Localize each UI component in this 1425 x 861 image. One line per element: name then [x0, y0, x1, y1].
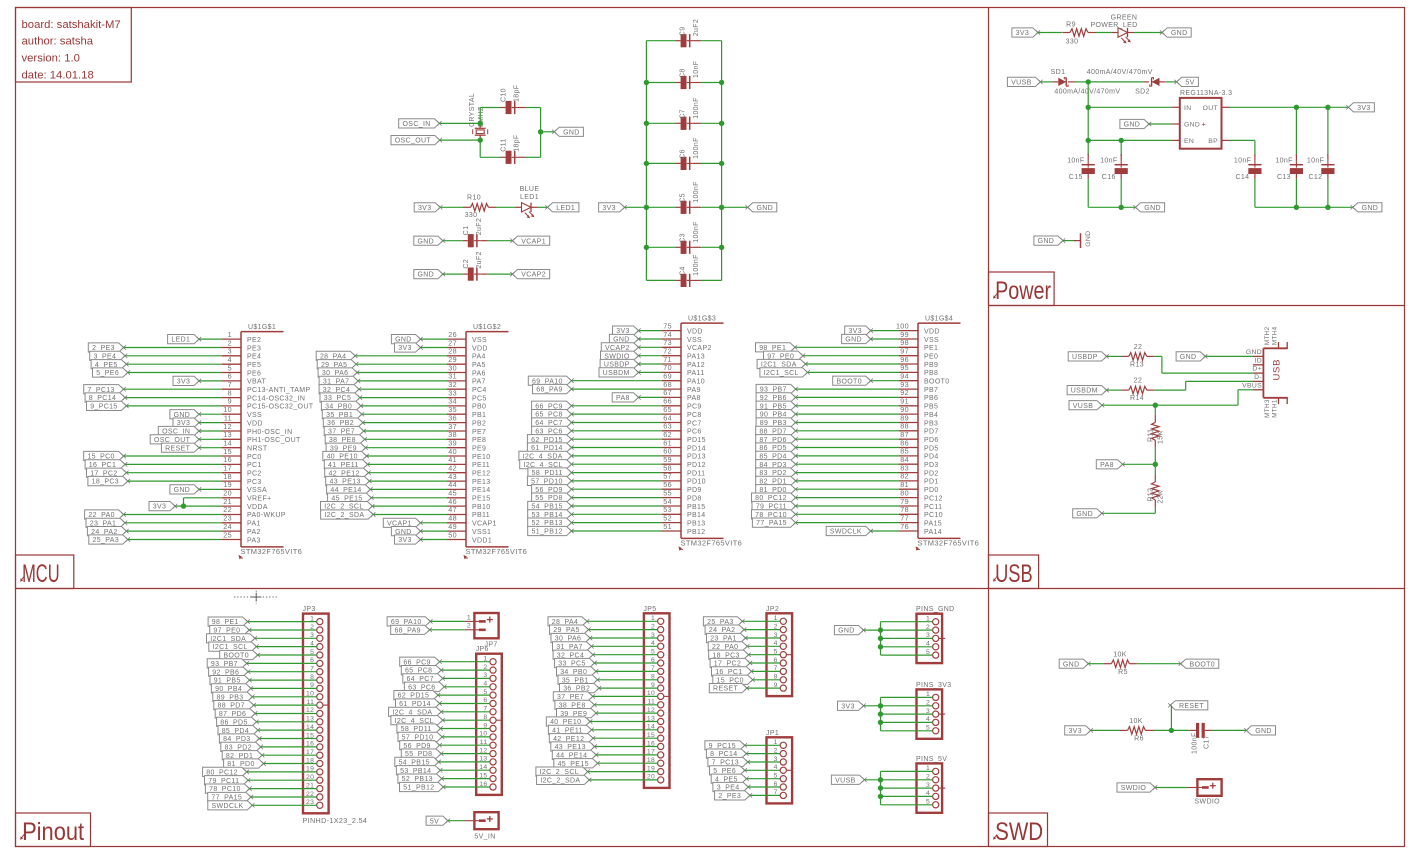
svg-text:JP3: JP3: [303, 606, 316, 613]
pin 19 of JP3: [306, 766, 323, 775]
label C5: [680, 193, 687, 203]
svg-text:STM32F765VIT6: STM32F765VIT6: [466, 547, 528, 556]
connector JP7 name: [485, 642, 498, 649]
svg-text:PH1-OSC_OUT: PH1-OSC_OUT: [247, 437, 301, 444]
pin 17 PC2 of U$1G$1: [222, 464, 262, 478]
pin 20 VREF+ of U$1G$1: [222, 489, 272, 503]
net label 8_PC14 JP1 pin 2: [706, 749, 748, 758]
wire bus to PINS_GND pin 1: [881, 621, 933, 623]
svg-text:3V3: 3V3: [602, 205, 616, 212]
svg-text:25: 25: [223, 530, 232, 539]
wire 82_PD1 to pin 82: [796, 480, 899, 482]
wire 79_PC11 to pin 79: [796, 505, 899, 507]
pin 5 of JP5: [651, 649, 664, 658]
svg-text:BP: BP: [1208, 138, 1218, 145]
wire 54_PB15 to JP6 pin 13: [439, 761, 490, 763]
wire R10 to LED1: [496, 206, 516, 208]
pin 94 BOOT0 of U$1G$4: [899, 372, 949, 386]
net label 61_PD14 JP6 pin 6: [396, 699, 442, 708]
wire 40_PE10 to pin 40: [367, 455, 447, 457]
net label 39_PE9 JP5 pin 12: [557, 709, 599, 718]
label 10nF C13: [1275, 158, 1292, 165]
svg-text:PC6: PC6: [687, 429, 702, 436]
pin 33 PC5 of U$1G$2: [447, 388, 487, 402]
pin 23 of JP3: [306, 799, 323, 808]
pin 4 of JP3: [310, 640, 323, 649]
net label I2C_4_SCL pin 59: [520, 460, 574, 469]
net label 54_PB15 JP6 pin 13: [395, 757, 441, 766]
pin 91 PB5 of U$1G$4: [899, 397, 938, 411]
wire 7_PC13 to pin 7: [124, 388, 222, 390]
pin 10 of JP6: [479, 731, 496, 740]
wire 22_PA0 to JP2 pin 4: [747, 645, 780, 647]
svg-text:10nF: 10nF: [1067, 158, 1084, 165]
net label I2C_2_SDA JP5 pin 20: [537, 775, 592, 784]
net label 86_PD5 pin 86: [756, 443, 798, 452]
svg-text:5V: 5V: [430, 818, 439, 825]
net label 69_PA10 JP7: [387, 617, 432, 626]
pin 68 PA9 of U$1G$3: [662, 380, 701, 394]
connector JP5 body: [644, 613, 670, 788]
pin 29 PA5 of U$1G$2: [447, 355, 486, 369]
net label PA8 pin 67: [612, 393, 641, 402]
svg-text:VCAP2: VCAP2: [521, 272, 546, 279]
svg-text:GND: GND: [845, 337, 862, 344]
pad SWDIO body: [1188, 779, 1222, 796]
net label 68_PA9 pin 68: [533, 384, 574, 393]
svg-text:PD4: PD4: [924, 454, 939, 461]
svg-text:PA9: PA9: [687, 387, 701, 394]
net label 92_PB6 pin 92: [756, 393, 798, 402]
wire junction to VREF+: [184, 498, 223, 506]
wire GND to pin 26: [421, 338, 448, 340]
wire 18_PC3 to JP2 pin 5: [749, 654, 781, 656]
net label GND pin 99: [842, 334, 873, 343]
wire 79_PC11 to JP3 pin 20: [248, 779, 317, 781]
wire 69_PA10 to pin 69: [572, 380, 663, 382]
wire 3V3 to pin 11: [199, 422, 222, 424]
wire 80_PC12 to JP3 pin 19: [247, 771, 317, 773]
pin 8 PC14-OSC32_IN of U$1G$1: [222, 388, 305, 402]
net label 43_PE13 pin 43: [326, 476, 372, 485]
wire 9_PC15 to pin 9: [126, 405, 222, 407]
wire SWDCLK to pin 76: [871, 530, 899, 532]
svg-text:GND: GND: [1171, 30, 1188, 37]
pin 90 PB4 of U$1G$4: [899, 405, 938, 419]
svg-text:U$1G$3: U$1G$3: [688, 315, 716, 322]
pin 17 of JP3: [306, 749, 323, 758]
net label 16_PC1 JP2 pin 7: [712, 667, 754, 676]
svg-text:100nF: 100nF: [693, 254, 700, 276]
svg-text:100nF: 100nF: [693, 97, 700, 119]
pin 3 of PINS_GND: [926, 632, 945, 641]
wire 29_PA5 to JP5 pin 2: [589, 629, 658, 631]
wire 33_PC5 to pin 33: [360, 397, 447, 399]
wire 30_PA6 to JP5 pin 3: [590, 637, 658, 639]
svg-text:VBUS: VBUS: [1242, 382, 1262, 389]
svg-text:PE8: PE8: [472, 437, 486, 444]
wire RESET to pin 14: [199, 447, 222, 449]
net label 64_PC7 pin 64: [532, 418, 574, 427]
wire PINS_3V3 bus: [880, 697, 882, 730]
label 18pF C10: [514, 85, 521, 102]
junction PA8/R12: [1153, 462, 1158, 467]
pin 36 PB2 of U$1G$2: [447, 413, 486, 427]
resistor R14: [1121, 386, 1154, 394]
label C9: [680, 27, 687, 37]
crystal label 8MHZ: [478, 106, 485, 127]
svg-text:PE13: PE13: [472, 479, 491, 486]
wire 16_PC1 to JP2 pin 7: [751, 670, 780, 672]
svg-text:PD1: PD1: [924, 479, 939, 486]
connector USB label: [1271, 359, 1282, 381]
net label 4_PE5 pin 4: [91, 360, 129, 369]
pin 57 PD10 of U$1G$3: [662, 472, 706, 486]
svg-text:PC1: PC1: [247, 462, 262, 469]
wire 28_PA4 to pin 28: [355, 355, 447, 357]
svg-text:GND: GND: [1180, 354, 1197, 361]
wire I2C1_SDA to pin 96: [806, 363, 900, 365]
svg-text:VUSB: VUSB: [835, 777, 855, 784]
regulator pin IN: [1171, 105, 1191, 112]
capacitor C12: [1321, 154, 1334, 179]
pin 4 of JP2: [774, 640, 787, 649]
wire R12 to GND: [1102, 507, 1156, 513]
net label 78_PC10 pin 78: [752, 510, 798, 519]
svg-text:76: 76: [900, 522, 909, 531]
pin 1 of PINS_3V3: [926, 691, 939, 700]
net label SWDIO pin 72: [601, 351, 641, 360]
pin 25 PA3 of U$1G$1: [222, 530, 261, 544]
pin 65 PC8 of U$1G$3: [662, 405, 702, 419]
pin 95 PB8 of U$1G$4: [899, 363, 938, 377]
pin 80 PC12 of U$1G$4: [899, 488, 943, 502]
net label GND PINS_GND: [834, 626, 865, 635]
net label OSC_OUT pin 13: [150, 435, 201, 444]
net label 29_PA5 pin 29: [317, 360, 358, 369]
svg-text:SWDCLK: SWDCLK: [211, 803, 243, 810]
label R9: [1066, 21, 1076, 28]
svg-text:D-: D-: [1254, 374, 1262, 381]
net label 23_PA1 JP2 pin 3: [707, 633, 748, 642]
pin 56 PD9 of U$1G$3: [662, 480, 702, 494]
junction EN/C16: [1119, 138, 1124, 143]
capacitor C13: [1290, 154, 1303, 179]
svg-text:PA8: PA8: [687, 395, 701, 402]
svg-text:VDD: VDD: [924, 328, 940, 335]
wire 25_PA3 to pin 25: [128, 539, 222, 541]
wire 23_PA1 to JP2 pin 3: [746, 637, 781, 639]
label 10nF C12: [1307, 158, 1324, 165]
wire 68_PA9 to JP7 pin 2: [430, 629, 465, 631]
wire GND to GND+ pin: [1149, 123, 1171, 125]
connector JP6 body: [476, 654, 502, 795]
net label 17_PC2 pin 17: [87, 468, 129, 477]
wire 62_PD15 to pin 62: [572, 438, 663, 440]
pin 7 PC13-ANTI_TAMP of U$1G$1: [222, 380, 311, 394]
svg-text:PB11: PB11: [472, 512, 490, 519]
pin 8 of JP2: [774, 674, 787, 683]
wire 64_PC7 to JP6 pin 3: [443, 677, 490, 679]
resistor R6: [1120, 727, 1153, 735]
wire C13 to GND rail: [1295, 179, 1297, 207]
wire 53_PB14 to JP6 pin 14: [440, 769, 490, 771]
wire rail to C7: [646, 122, 721, 124]
svg-text:GND: GND: [1255, 728, 1272, 735]
pin 69 PA10 of U$1G$3: [662, 372, 705, 386]
svg-text:10nF: 10nF: [693, 61, 700, 78]
wire bus to PINS_3V3 pin 2: [881, 705, 933, 707]
wire rail to C6: [646, 162, 721, 164]
net label 62_PD15 pin 62: [527, 435, 573, 444]
pin 20 of JP5: [647, 774, 664, 783]
wire R9 to POWER_LED: [1096, 32, 1113, 34]
svg-text:version: 1.0: version: 1.0: [22, 53, 80, 65]
label C14: [1236, 174, 1250, 181]
svg-text:GND: GND: [1362, 205, 1379, 212]
capacitor C9: [676, 34, 701, 47]
pin 74 VSS of U$1G$3: [662, 330, 702, 344]
net label GND crystal: [552, 127, 583, 136]
pin 9 PC15-OSC32_OUT of U$1G$1: [222, 397, 314, 411]
net label 52_PB13 JP6 pin 15: [398, 774, 444, 783]
net label GND usb: [1176, 352, 1207, 361]
junction dots C8: [644, 80, 725, 85]
svg-text:C17: C17: [1204, 735, 1211, 749]
wire I2C_2_SDA to JP5 pin 20: [589, 779, 657, 781]
svg-text:VCAP1: VCAP1: [521, 238, 546, 245]
wire I2C_4_SDA to pin 60: [572, 455, 663, 457]
wire EN row: [1088, 139, 1171, 141]
label C3: [680, 233, 687, 243]
pin 43 PE13 of U$1G$2: [447, 472, 491, 486]
wire 90_PB4 to JP3 pin 9: [251, 687, 317, 689]
pin 93 PB7 of U$1G$4: [899, 380, 938, 394]
net label OSC_IN pin 12: [158, 426, 201, 435]
label C10: [501, 88, 508, 102]
svg-text:PD7: PD7: [924, 429, 939, 436]
svg-text:22: 22: [1134, 378, 1143, 385]
pin 98 PE1 of U$1G$4: [899, 338, 938, 352]
net label OSC_IN: [399, 119, 442, 128]
net label 61_PD14 pin 61: [527, 443, 573, 452]
wire BOOT0 to pin 94: [871, 380, 899, 382]
junction EN/C15: [1086, 138, 1091, 143]
net label GND right rail: [1351, 203, 1382, 212]
pin 66 PC9 of U$1G$3: [662, 397, 702, 411]
net label VUSB power: [1007, 77, 1042, 86]
net label 84_PD3 pin 84: [756, 460, 798, 469]
pin 37 PE7 of U$1G$2: [447, 422, 486, 436]
pin 42 PE12 of U$1G$2: [447, 464, 491, 478]
wire I2C_4_SCL to JP6 pin 8: [443, 719, 490, 721]
pin 82 PD1 of U$1G$4: [899, 472, 939, 486]
svg-text:PD9: PD9: [687, 487, 702, 494]
svg-text:VREF+: VREF+: [247, 496, 272, 503]
net label RESET pin 14: [161, 443, 201, 452]
pin 28 PA4 of U$1G$2: [447, 347, 486, 361]
wire GND to pin 74: [639, 338, 663, 340]
pin 8 of JP6: [483, 714, 502, 723]
pin 12 of JP5: [647, 707, 664, 716]
svg-text:PA11: PA11: [687, 370, 705, 377]
svg-text:VUSB: VUSB: [1011, 80, 1031, 87]
net label 31_PA7 pin 31: [319, 376, 360, 385]
net label GND pin 49: [391, 527, 422, 536]
wire R6 to junction: [1153, 729, 1171, 731]
svg-text:PE1: PE1: [924, 345, 938, 352]
svg-text:10nF: 10nF: [1234, 158, 1251, 165]
node junction crystal GND: [538, 129, 543, 134]
wire 91_PB5 to JP3 pin 8: [250, 679, 317, 681]
pin 76 PA14 of U$1G$4: [899, 522, 942, 536]
net label 79_PC11 JP3 pin 20: [205, 776, 251, 785]
label C13: [1277, 174, 1291, 181]
net label 15_PC0 JP2 pin 8: [713, 675, 755, 684]
pin 12 of JP3: [306, 707, 323, 716]
svg-text:68_PA9: 68_PA9: [394, 627, 421, 634]
section title MCU: [16, 555, 74, 589]
wire VUSB junction down: [1154, 405, 1156, 415]
net label 35_PB1 JP5 pin 8: [558, 675, 600, 684]
wire SWDIO to pin 72: [639, 355, 663, 357]
pin 19 VSSA of U$1G$1: [222, 480, 267, 494]
USB pin MTH1: [1271, 398, 1287, 418]
regulator pin BP: [1208, 138, 1230, 145]
USB pin D-: [1253, 374, 1264, 381]
svg-text:10K: 10K: [1113, 652, 1127, 659]
svg-text:PB4: PB4: [924, 412, 938, 419]
svg-text:CRYSTAL: CRYSTAL: [469, 93, 476, 127]
wire 83_PD2 to pin 83: [796, 472, 899, 474]
net label 89_PB3 pin 89: [756, 418, 798, 427]
pin 5 of JP3: [310, 649, 323, 658]
net label 3V3 LED1: [414, 203, 442, 212]
svg-text:U$1G$2: U$1G$2: [473, 324, 501, 331]
svg-text:3V3: 3V3: [398, 537, 412, 544]
pin 16 of JP6: [479, 781, 496, 790]
divider Power/USB: [989, 305, 1405, 307]
svg-text:3V3: 3V3: [1016, 30, 1030, 37]
pin 45 PE15 of U$1G$2: [447, 489, 491, 503]
wire R14 to D-: [1154, 381, 1253, 390]
net label 66_PC9 pin 66: [532, 401, 574, 410]
label 10nF C15: [1067, 158, 1084, 165]
IC U$1G$1 name: [248, 324, 276, 331]
node B junction OSC_OUT: [478, 137, 483, 142]
svg-text:STM32F765VIT6: STM32F765VIT6: [918, 539, 980, 548]
pin 4 of JP1: [774, 764, 793, 773]
wire GND to C1: [443, 240, 463, 242]
svg-text:PE5: PE5: [247, 362, 261, 369]
pin 2 of JP5: [651, 623, 664, 632]
wire C16 to GND rail: [1120, 179, 1122, 207]
svg-text:PD5: PD5: [924, 445, 939, 452]
net label 77_PA15 JP3 pin 22: [208, 792, 253, 801]
wire C11 to GND corner: [526, 132, 541, 158]
net label BOOT0 JP3 pin 5: [220, 650, 260, 659]
wire 45_PE15 to pin 45: [371, 497, 447, 499]
svg-text:GND: GND: [1144, 205, 1161, 212]
crystal label CRYSTAL: [469, 93, 476, 127]
wire PINS_5V bus: [880, 771, 882, 804]
net label 41_PE11 pin 41: [324, 460, 370, 469]
wire 64_PC7 to pin 64: [572, 422, 663, 424]
net label 5V power: [1174, 77, 1198, 86]
pin 16 of JP3: [306, 741, 323, 750]
wire 18_PC3 to pin 18: [128, 480, 222, 482]
net label GND pin 10: [170, 410, 201, 419]
wire 98_PE1 to pin 98: [795, 346, 899, 348]
net label 66_PC9 JP6 pin 1: [400, 657, 442, 666]
label 10nF C14: [1234, 158, 1251, 165]
net label 53_PB14 JP6 pin 14: [396, 766, 442, 775]
wire C16 branch: [1120, 140, 1122, 156]
svg-text:R13: R13: [1130, 361, 1144, 368]
net label 31_PA7 JP5 pin 4: [553, 642, 594, 651]
connector 5V_IN body: [465, 812, 499, 829]
net label 30_PA6 pin 30: [318, 368, 359, 377]
wire 3V3 to pin 100: [871, 330, 899, 332]
svg-text:GND: GND: [1184, 122, 1200, 129]
svg-text:C5: C5: [680, 193, 687, 203]
pin 26 VSS of U$1G$2: [447, 330, 487, 344]
wire 65_PC8 to pin 65: [572, 413, 663, 415]
capacitor C4: [676, 274, 701, 287]
regulator pin OUT: [1203, 105, 1230, 112]
svg-text:POWER_LED: POWER_LED: [1090, 22, 1137, 29]
wire 86_PD5 to JP3 pin 13: [257, 721, 317, 723]
pin 2 of PINS_5V: [926, 774, 939, 783]
label 100nF C17: [1191, 732, 1198, 754]
pin 24 PA2 of U$1G$1: [222, 522, 261, 536]
svg-text:VDD: VDD: [687, 328, 703, 335]
wire 77_PA15 to JP3 pin 22: [251, 796, 317, 798]
svg-text:PC12: PC12: [924, 495, 943, 502]
wire C15 branch: [1087, 140, 1089, 156]
junction PINS_3V3: [878, 711, 883, 716]
connector X1 USB body: [1263, 348, 1287, 398]
wire VUSB to VBUS: [1102, 390, 1253, 405]
wire 34_PB0 to pin 34: [361, 405, 447, 407]
net label 88_PD7 pin 88: [756, 426, 798, 435]
label 10K R6: [1129, 718, 1143, 725]
IC U$1G$4 value STM32F765VIT6: [916, 539, 980, 551]
wire 98_PE1 to JP3 pin 1: [248, 621, 317, 623]
wire 61_PD14 to pin 61: [572, 447, 663, 449]
net label GND regulator: [1120, 119, 1151, 128]
wire 36_PB2 to pin 36: [363, 422, 447, 424]
pin 4 of PINS_5V: [926, 790, 939, 799]
net label 3V3 power led: [1012, 28, 1040, 37]
svg-text:C9: C9: [680, 27, 687, 37]
net label 18_PC3 pin 18: [88, 476, 130, 485]
pin 3 of JP3: [310, 632, 323, 641]
svg-text:VDD: VDD: [247, 420, 263, 427]
pin 15 of JP3: [306, 732, 323, 741]
svg-text:author: satsha: author: satsha: [22, 36, 94, 48]
wire rail to C5: [646, 206, 721, 208]
wire VUSB to SD1: [1040, 81, 1052, 83]
svg-text:1: 1: [467, 614, 471, 621]
pin 8 of JP5: [651, 674, 664, 683]
net label 8_PC14 pin 8: [85, 393, 127, 402]
svg-text:PC9: PC9: [687, 404, 702, 411]
svg-text:PD2: PD2: [924, 470, 939, 477]
svg-text:SD2: SD2: [1135, 89, 1150, 96]
wire C12 branch: [1327, 107, 1329, 156]
wire 63_PC6 to pin 63: [572, 430, 663, 432]
